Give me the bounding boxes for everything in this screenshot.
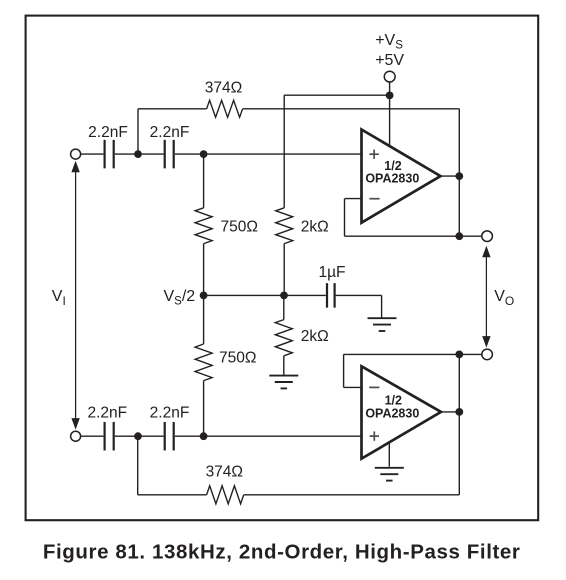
wire R6 left lead	[138, 494, 207, 496]
capacitor 2.2nF input bottom second	[164, 422, 166, 451]
junction U1B feedback / VO-	[455, 351, 463, 359]
wire U1B output	[438, 411, 459, 413]
junction U1A feedback / VO+	[455, 232, 463, 240]
wire R2 bottom lead to VS/2 node	[203, 244, 205, 296]
capacitor 2.2nF input top first	[103, 140, 105, 169]
capacitor 1&#181;F bypass	[326, 283, 328, 308]
junction VS/2 at R2/R4	[200, 292, 208, 300]
wire R5 to ground	[283, 356, 285, 376]
wire C1 to node A	[115, 153, 164, 155]
output terminal VO top	[482, 231, 493, 242]
wire U1A feedback to output column	[345, 235, 460, 237]
svg-text:750Ω: 750Ω	[221, 218, 258, 235]
wire output column top (R1 to U1A output to feedback)	[458, 109, 460, 236]
capacitor 2.2nF input top second	[164, 140, 166, 169]
svg-text:2.2nF: 2.2nF	[150, 404, 190, 421]
op-amp U1A 1/2 OPA2830 (top)	[362, 130, 441, 223]
wire +VS rail left	[284, 94, 389, 96]
wire R1 left lead	[138, 108, 207, 110]
U1A minus input symbol	[369, 198, 379, 200]
wire node A up to R1	[137, 109, 139, 154]
junction node C2 (bottom caps / R4)	[200, 432, 208, 440]
wire R4 bottom lead to node B	[203, 381, 205, 437]
wire R6 right lead to output column	[244, 494, 460, 496]
svg-text:2.2nF: 2.2nF	[88, 124, 128, 141]
wire node C down to R6	[137, 436, 139, 495]
wire U1B feedback to output column	[344, 353, 460, 355]
wire +5V stem	[389, 82, 391, 95]
wire VS/2 down to R5	[283, 295, 285, 319]
VI measurement arrow	[75, 163, 77, 428]
wire node C to U1B noninverting input	[175, 435, 362, 437]
svg-text:+5V: +5V	[375, 52, 404, 69]
wire output column bottom (U1B output loop)	[458, 354, 460, 494]
svg-text:2.2nF: 2.2nF	[150, 124, 190, 141]
resistor 374&#937; bottom	[207, 486, 244, 504]
svg-text:374Ω: 374Ω	[206, 464, 243, 481]
wire C3 to ground	[336, 294, 382, 296]
ground at 1uF capacitor	[368, 317, 397, 319]
wire VS/2 node to C3	[204, 294, 326, 296]
junction +VS rail	[386, 92, 394, 100]
wire VS/2 down to R4	[203, 295, 205, 344]
input terminal VI top	[71, 149, 81, 159]
output terminal VO bottom	[482, 349, 493, 360]
junction node C (bottom caps)	[134, 432, 142, 440]
svg-text:1µF: 1µF	[318, 264, 345, 281]
wire input VI- to C4	[81, 435, 104, 437]
junction node A2 (top caps / R2)	[200, 150, 208, 158]
power terminal +5V	[384, 71, 395, 82]
wire U1A feedback drop	[344, 199, 346, 237]
wire U1A positive supply pin	[389, 95, 391, 148]
wire R2 top lead from node A2	[203, 154, 205, 208]
svg-text:374Ω: 374Ω	[205, 79, 242, 96]
wire +VS rail down to R3 divider	[283, 95, 285, 208]
wire R1 right lead to output column	[243, 108, 460, 110]
resistor 2k&#937; bottom	[275, 320, 292, 356]
wire input VI+ to C1	[81, 153, 104, 155]
resistor 750&#937; top	[195, 208, 212, 244]
VO measurement arrow	[485, 248, 487, 346]
U1B minus input symbol	[369, 386, 379, 388]
junction VS/2 at divider	[280, 292, 288, 300]
svg-text:OPA2830: OPA2830	[365, 406, 419, 420]
resistor 750&#937; bottom	[195, 344, 212, 381]
svg-text:2kΩ: 2kΩ	[301, 218, 329, 235]
junction U1B output	[455, 408, 463, 416]
svg-text:2kΩ: 2kΩ	[301, 328, 329, 345]
svg-text:750Ω: 750Ω	[219, 350, 256, 367]
resistor 374&#937; top	[207, 100, 243, 117]
wire to VO+ terminal	[459, 235, 482, 237]
wire to VO- terminal	[459, 353, 482, 355]
svg-text:OPA2830: OPA2830	[365, 172, 419, 186]
wire U1B negative supply pin	[388, 435, 390, 467]
wire node A to U1A noninverting input	[175, 153, 362, 155]
junction node A (top caps)	[134, 150, 142, 158]
wire U1B inverting input to feedback	[344, 386, 362, 388]
ground at 2k divider	[269, 375, 298, 377]
svg-text:2.2nF: 2.2nF	[87, 404, 127, 421]
ground at U1B supply pin	[375, 467, 404, 469]
wire C4 to node C	[115, 435, 164, 437]
junction U1A output	[455, 172, 463, 180]
U1A plus input symbol	[369, 153, 378, 155]
U1B plus input symbol	[370, 435, 379, 437]
op-amp U1B 1/2 OPA2830 (bottom)	[362, 366, 442, 458]
wire U1A inverting input to feedback	[345, 198, 362, 200]
wire U1B feedback rise	[343, 354, 345, 387]
input terminal VI bottom	[71, 431, 81, 441]
svg-text:Figure 81. 138kHz, 2nd-Order,: Figure 81. 138kHz, 2nd-Order, High-Pass …	[43, 540, 521, 563]
wire C3 ground stem	[381, 295, 383, 318]
resistor 2k&#937; top	[276, 208, 293, 244]
wire R3 bottom lead to VS/2 node	[283, 244, 285, 296]
wire U1A output	[438, 175, 459, 177]
capacitor 2.2nF input bottom first	[103, 422, 105, 451]
